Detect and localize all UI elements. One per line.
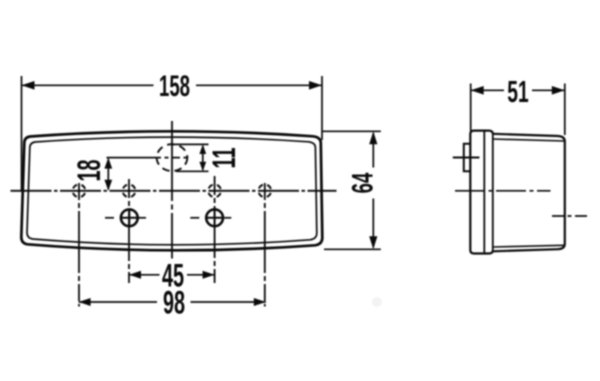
svg-text:18: 18 <box>71 159 107 181</box>
svg-text:51: 51 <box>507 76 528 110</box>
svg-text:98: 98 <box>163 285 185 321</box>
svg-text:64: 64 <box>346 173 380 194</box>
svg-text:158: 158 <box>159 70 190 104</box>
svg-text:11: 11 <box>206 147 242 168</box>
